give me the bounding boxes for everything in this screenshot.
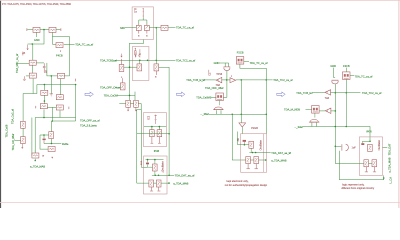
capacitor C24: [364, 160, 369, 167]
wire rail y=175.25: [152, 174, 174, 176]
wire label to X3: [345, 68, 347, 72]
wire jog from IC1 down-left: [130, 40, 144, 101]
wire y=135 into R11: [40, 134, 49, 136]
svg-text:Oscillator: Oscillator: [378, 140, 381, 151]
wire module right to rotated label: [383, 147, 388, 149]
pin stubs with gnd ticks: [365, 167, 368, 172]
IC1b outline box: [132, 47, 149, 81]
svg-text:TDA_TC_ca_af: TDA_TC_ca_af: [355, 75, 373, 79]
svg-text:MID: MID: [120, 26, 125, 30]
wire long drop from amp2 junction: [240, 80, 242, 123]
node junction: [43, 134, 45, 136]
wire R10 bottom: [59, 111, 61, 118]
svg-text:a_TDA_MAB: a_TDA_MAB: [30, 165, 45, 169]
svg-text:kept electronic only,: kept electronic only,: [227, 180, 249, 183]
svg-text:TDA_TC_ca_af: TDA_TC_ca_af: [250, 61, 268, 65]
node junction: [345, 126, 347, 128]
ground symbol: [50, 94, 53, 96]
wire R5 left stub: [26, 75, 29, 77]
resistor R6: [58, 73, 65, 78]
wire feed left: [238, 132, 249, 145]
crystal X4: [312, 106, 320, 114]
node junction: [255, 152, 257, 154]
crystal X2: [216, 93, 224, 101]
svg-text:a_TDA_MAB: a_TDA_MAB: [387, 157, 391, 172]
wire up elbow x=135: [134, 92, 136, 101]
node junction: [226, 79, 228, 81]
capacitor C5 small box: [136, 25, 141, 30]
node junction: [265, 159, 267, 161]
op-amp U6: [325, 108, 331, 113]
module C inner partition: [263, 134, 265, 173]
resistor R14 vertical inside: [135, 48, 137, 57]
wire into amp4: [313, 92, 325, 94]
svg-text:TDA_TC2_ca_af: TDA_TC2_ca_af: [176, 59, 196, 63]
module C outline: [241, 134, 267, 173]
svg-text:TDA_DAT_aa_af: TDA_DAT_aa_af: [271, 151, 291, 155]
capacitor C15 curved plate: [224, 67, 231, 71]
node junction: [244, 144, 246, 146]
wire rail y=152.5: [249, 152, 270, 154]
wire Q3-Q4 link: [124, 66, 137, 68]
crystal X3: [343, 72, 351, 80]
wire amp junction drop to X2: [226, 80, 228, 98]
node junction: [44, 100, 46, 102]
wire C4 bottom stub: [34, 159, 36, 161]
wire cap down: [334, 84, 336, 146]
node junction: [168, 133, 170, 135]
wire stubs to caps: [152, 127, 160, 130]
wire amp1-amp2: [222, 79, 230, 81]
svg-text:TDA_TC2_ca_af: TDA_TC2_ca_af: [273, 78, 293, 82]
capacitor C11: [157, 130, 162, 137]
wire X4 to amp5: [319, 110, 325, 112]
wire into module top: [369, 133, 371, 142]
wire R4 right: [36, 62, 44, 64]
pin stubs with gnd ticks: [151, 137, 154, 143]
wire rail y=126.6: [144, 126, 166, 128]
svg-text:Oscillator: Oscillator: [162, 161, 165, 172]
resistor R2: [49, 27, 56, 32]
capacitor C9 box: [134, 100, 139, 107]
capacitor C7 vertical inside: [139, 49, 141, 57]
wire staircase down: [137, 104, 141, 184]
node junction: [158, 174, 160, 176]
wire y=103.5 segments: [119, 103, 141, 105]
node junction: [75, 84, 77, 86]
wire amp2 to label: [236, 79, 273, 81]
wire vertical rail x=75.6: [75, 85, 77, 122]
pin stubs with gnd ticks: [150, 187, 153, 191]
junction dot at cap feed: [335, 145, 337, 147]
wire X4 bottom to dome: [314, 113, 316, 118]
svg-text:TDA_OFF_38af: TDA_OFF_38af: [205, 86, 224, 90]
resistor R7 on vertical rail: [43, 85, 45, 91]
capacitor C10: [150, 130, 155, 137]
svg-text:TDA_3.8_38af: TDA_3.8_38af: [11, 133, 15, 150]
wire Q5 bottom stub: [154, 171, 156, 175]
capacitor C17 plate: [243, 140, 246, 142]
pin tick above F4CB: [60, 50, 62, 52]
svg-text:a_TDA_MAB: a_TDA_MAB: [271, 159, 286, 163]
frame border left dark edge: [0, 0, 1, 208]
resistor R8: [56, 95, 63, 100]
resistor R5: [29, 73, 36, 78]
wire R1-R2: [40, 29, 49, 31]
pin stubs below C5 C6: [139, 30, 147, 33]
svg-text:F4CB: F4CB: [56, 53, 63, 57]
pin tick: [162, 170, 164, 173]
inverter U4 triangle down: [239, 123, 246, 127]
transistor Q3 box: [119, 65, 124, 72]
wire R6 bottom to R8: [59, 79, 61, 95]
wire rail y=126.5: [303, 127, 370, 133]
resistor R10: [56, 105, 63, 110]
wire Q4 top stub: [138, 60, 140, 64]
wire rail y=60.3: [113, 59, 176, 61]
node junction bottom right: [383, 177, 385, 179]
wire Q5 top stub: [154, 160, 156, 164]
pin tick left: [35, 106, 37, 109]
wire R12 to pair: [139, 18, 147, 26]
wire drop to C3: [40, 135, 48, 149]
module B outline: [144, 156, 168, 194]
node junction: [151, 126, 153, 128]
node junction: [265, 113, 267, 115]
node junction: [335, 110, 337, 112]
wire R9 bottom: [43, 109, 45, 117]
transistor Q3 pin arrow: [121, 54, 123, 58]
resistor R1: [33, 27, 40, 32]
svg-text:..._3daf: ..._3daf: [294, 125, 303, 129]
wire long left drop: [22, 94, 24, 122]
node junction: [52, 120, 54, 122]
resistor R12 vertical lead inside IC1: [143, 9, 144, 18]
wire input stub: [27, 29, 33, 31]
svg-text:TDA_OFF_ca_af: TDA_OFF_ca_af: [80, 118, 100, 122]
pin arrows below C8 C9: [127, 107, 129, 111]
node junction: [51, 143, 53, 145]
capacitor C19: [254, 157, 259, 164]
capacitor C6 small box: [145, 25, 150, 30]
wire long rail y=84.5: [37, 84, 76, 86]
svg-text:TDA_Ca0M2: TDA_Ca0M2: [196, 96, 212, 100]
wire R5 bottom loop: [23, 79, 33, 94]
node junction: [154, 159, 156, 161]
transistor Q6 box: [249, 141, 254, 148]
wire gnd to cap: [334, 68, 336, 78]
pin stub below R15: [155, 71, 157, 75]
wire drop x=232.25: [232, 114, 245, 160]
svg-text:IC2: IC2: [147, 115, 150, 120]
wire R11 top: [51, 121, 53, 132]
wire R2 right stub: [56, 29, 60, 31]
svg-text:TDA_Ca08: TDA_Ca08: [5, 124, 9, 137]
capacitor C16 dome: [213, 107, 224, 110]
node junction: [44, 84, 46, 86]
op-amp U3: [230, 78, 236, 83]
node junction: [168, 174, 170, 176]
wire C23 down leg: [339, 151, 383, 180]
wire R2 bottom elbow: [51, 32, 53, 44]
svg-text:logic represent only,: logic represent only,: [342, 184, 364, 187]
svg-text:..._38af: ..._38af: [200, 112, 209, 116]
pin tick small: [22, 52, 24, 56]
capacitor C20 curved plate: [332, 80, 339, 84]
svg-text:RuBa: RuBa: [62, 142, 69, 146]
wire R13 to label: [168, 27, 175, 29]
svg-text:TDA_IA_NDB: TDA_IA_NDB: [284, 107, 300, 111]
capacitor C21 dome: [309, 119, 320, 122]
svg-text:1uF: 1uF: [352, 147, 357, 150]
wire C4 top feed: [34, 150, 36, 153]
svg-text:IP38: IP38: [154, 149, 160, 153]
wire label to R4: [18, 62, 29, 64]
node junction: [369, 140, 371, 142]
op-amp U2: [216, 77, 222, 82]
blue arrow 1: [85, 92, 93, 97]
node junction: [147, 60, 149, 62]
IC1 outline box: [132, 7, 153, 40]
svg-text:L_CA: L_CA: [388, 177, 392, 184]
wire label to X4: [306, 108, 312, 110]
wire X2 right up: [223, 96, 227, 98]
svg-text:TDA_DAT: TDA_DAT: [387, 143, 391, 155]
pin tick near rail: [75, 79, 77, 82]
resistor R3: [56, 43, 63, 48]
node junction: [154, 174, 156, 176]
wire R3 to label: [64, 43, 75, 45]
svg-text:TDA_TC2_ca_af: TDA_TC2_ca_af: [362, 91, 382, 95]
wire rail y=121: [52, 120, 75, 122]
node junction: [335, 126, 337, 128]
wire branch right: [33, 85, 37, 94]
wire elbow R4 to R6: [47, 63, 58, 76]
svg-text:C: C: [138, 54, 140, 57]
wire U4 out to module C: [241, 127, 243, 134]
node junction: [240, 113, 242, 115]
node junction: [240, 79, 242, 81]
svg-text:TDA_TC_ca_af: TDA_TC_ca_af: [176, 26, 194, 30]
wire branch to tall vertical: [52, 37, 69, 76]
wire label to R16: [115, 86, 120, 88]
svg-text:TDA_CaOM: TDA_CaOM: [104, 94, 118, 98]
module D outline: [359, 137, 382, 176]
wire junction down to ground: [50, 76, 52, 94]
wire long vertical x=156.25: [155, 28, 157, 64]
wire into amp1: [202, 79, 216, 81]
node junction: [43, 117, 45, 119]
node junction: [231, 113, 233, 115]
blue arrow 3: [277, 92, 285, 97]
svg-text:IP08: IP08: [366, 129, 372, 133]
wire X3 bottom long drop: [345, 79, 347, 126]
transistor Q4 box: [137, 64, 142, 71]
crystal X1: [236, 57, 244, 65]
wire R4 bottom to R5: [32, 65, 34, 73]
pin tick below IC1b: [121, 76, 123, 78]
wire label to Q2: [15, 139, 21, 141]
svg-text:GND: GND: [214, 61, 220, 65]
capacitor C25: [372, 160, 377, 167]
op-amp U5: [325, 90, 331, 95]
wire rail y=114.25: [209, 113, 266, 115]
node junction: [265, 79, 267, 81]
wire amp4 out: [330, 92, 360, 94]
resistor R4: [29, 60, 36, 65]
resistor R15 vertical on x=156 rail: [154, 64, 159, 71]
capacitor C18: [246, 157, 251, 164]
capacitor C23 curved plate opening right: [342, 144, 348, 151]
wire CaOM rail: [118, 94, 135, 96]
wire branch down: [51, 107, 53, 121]
resistor R11 vertical: [49, 132, 54, 139]
wire C12 bottom link: [148, 165, 153, 168]
wire label to X2: [211, 96, 217, 98]
wire MID into IC1: [125, 27, 136, 29]
pin arrow below C3: [51, 157, 53, 159]
wire drop left to K2: [34, 118, 36, 154]
wire rail inside y=141.25: [363, 140, 371, 142]
node junction: [155, 60, 157, 62]
wire R15 right elbow down: [159, 67, 170, 175]
capacitor C13: [149, 180, 154, 187]
resistor R16 vertical: [120, 83, 125, 90]
pin tick: [230, 75, 232, 77]
frame border top: [0, 0, 400, 2]
svg-text:Oscillator: Oscillator: [259, 140, 262, 151]
node junction: [129, 95, 131, 97]
svg-text:a_TDA_MAB: a_TDA_MAB: [173, 182, 188, 186]
pin tick left of R1: [26, 28, 28, 31]
transistor Q2 box: [21, 137, 26, 144]
svg-text:TDA_DAT_aa_af: TDA_DAT_aa_af: [175, 174, 195, 178]
wire X2 bottom to dome: [218, 101, 220, 106]
wire top rail inside B: [146, 159, 164, 161]
node junction: [129, 66, 131, 68]
wire R7 bottom: [43, 95, 45, 104]
pin stub Q2 bottom: [22, 144, 24, 149]
wire X1 bottom elbow to long rail: [240, 64, 266, 134]
transistor Q4 marks: [135, 52, 137, 56]
capacitor C1 vertical red: [43, 63, 46, 72]
node junction: [155, 27, 157, 29]
svg-text:7A8: 7A8: [325, 97, 330, 100]
capacitor C2 plate: [43, 135, 45, 138]
wire cap join: [44, 143, 52, 145]
capacitor C12 plate: [147, 160, 149, 163]
svg-text:P2GB: P2GB: [251, 127, 258, 130]
svg-text:TDA_OFF_CA_af: TDA_OFF_CA_af: [100, 86, 121, 90]
dome legs: [216, 110, 221, 114]
wire Q1 to Q2: [22, 128, 24, 136]
node junction: [345, 92, 347, 94]
wire Q6 bottom: [250, 148, 252, 152]
wire junction down then left: [28, 30, 44, 44]
svg-text:F2CB: F2CB: [237, 51, 244, 55]
wire parallel drop: [31, 118, 33, 156]
svg-text:not for authenticity/propagati: not for authenticity/propagation design: [225, 184, 268, 187]
pin tick right: [68, 107, 70, 110]
frame border bottom: [0, 201, 400, 204]
wire junction to C23: [335, 145, 341, 147]
svg-text:GND: GND: [34, 38, 40, 42]
transistor Q1 box: [21, 121, 26, 128]
wire gnd label to cap: [219, 63, 228, 67]
wire R11 bottom to label: [52, 139, 62, 144]
pin marks left: [208, 70, 210, 73]
svg-text:TDA_TC_ca_af: TDA_TC_ca_af: [75, 42, 93, 46]
capacitor C4: [32, 153, 39, 158]
capacitor C8 box: [126, 100, 131, 107]
wire rail y=117.5: [35, 117, 75, 119]
wire Q3 top stub: [121, 59, 123, 65]
pin arrow right of C4: [43, 155, 45, 157]
node junction: [335, 92, 337, 94]
wire between caps: [369, 162, 373, 164]
node junction: [252, 152, 254, 154]
svg-text:TDA_Ca2_af: TDA_Ca2_af: [11, 109, 15, 124]
node junction at 32.3,44: [32, 43, 34, 45]
svg-text:TDA_TCB2_af: TDA_TCB2_af: [100, 58, 117, 62]
blue arrow 2: [177, 92, 185, 97]
wire rail y=183.1: [137, 182, 169, 184]
transistor Q5 box: [153, 164, 158, 171]
wire down into R4 top: [32, 44, 34, 60]
resistor R13: [161, 25, 168, 30]
frame border right: [398, 0, 399, 208]
svg-text:TDA_TCB_E2: TDA_TCB_E2: [296, 91, 313, 95]
node junction: [51, 75, 53, 77]
module A outline: [144, 113, 167, 147]
resistor R9: [40, 104, 47, 109]
capacitor C22 plate: [361, 143, 364, 145]
svg-text:TDA_3.8_beta: TDA_3.8_beta: [80, 123, 97, 127]
transistor Q7 box: [368, 144, 373, 151]
resistor marks left outside: [140, 161, 142, 165]
pin tick right of R2: [60, 28, 62, 31]
wire cap down to amp rail: [226, 71, 228, 80]
capacitor C14: [156, 180, 161, 187]
tiny label stub far left: [289, 152, 291, 154]
capacitor C3: [48, 147, 55, 152]
wire X3 right to label: [350, 75, 354, 77]
node junction: [159, 126, 161, 128]
svg-text:+B: +B: [22, 52, 25, 55]
wire C6 to R13: [149, 27, 161, 29]
pin arrow below wire end: [27, 45, 29, 50]
pin stubs with gnd ticks: [246, 164, 250, 169]
node junction: [139, 60, 141, 62]
wire R9-R10: [47, 106, 56, 108]
pin stub red below IC1b: [122, 78, 124, 83]
svg-text:different from original circui: different from original circuitry: [341, 187, 374, 190]
wire GND stub under R1: [35, 32, 37, 37]
wire amp5 out: [331, 110, 336, 112]
wire second drop: [141, 110, 147, 168]
wire rail y=160: [250, 159, 265, 161]
node junction: [168, 182, 170, 184]
wire junction drop to V boxes: [335, 146, 364, 163]
dome legs: [312, 123, 317, 127]
node junction at 44,29.6: [43, 29, 45, 31]
ground symbol left: [23, 76, 26, 80]
node junction: [147, 159, 149, 161]
svg-text:TP18: TP18: [216, 73, 223, 76]
wire X1 right to label: [244, 60, 249, 62]
svg-text:FYI: TDA-1075, TDA-4500, TDA-1: FYI: TDA-1075, TDA-4500, TDA-1170S, TDA-…: [2, 3, 72, 6]
wire rail y=133.75: [137, 133, 169, 135]
